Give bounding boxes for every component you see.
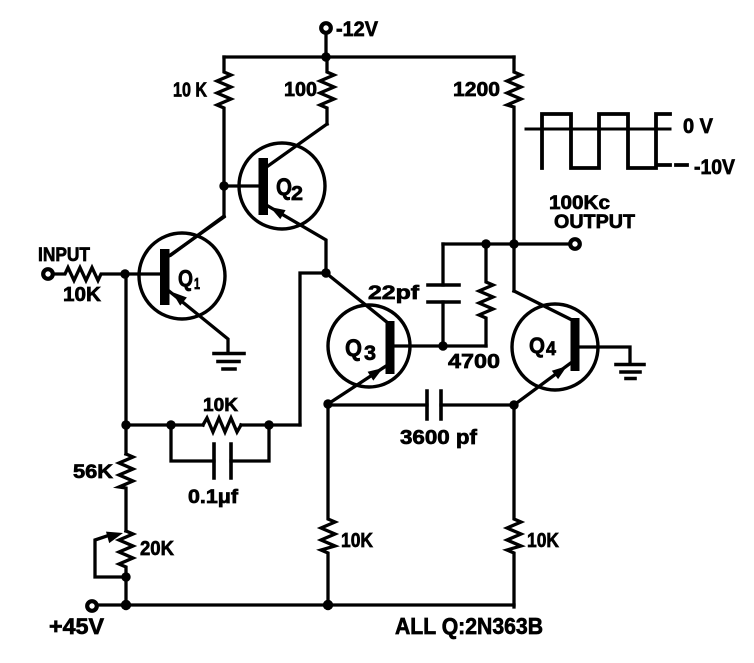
transistor Q2 emitter arrow bbox=[270, 207, 286, 219]
resistor 10K input bbox=[53, 268, 160, 281]
terminal INPUT bbox=[43, 269, 53, 279]
transistor Q4 circle bbox=[512, 304, 598, 390]
wire rail to Q4 collector bbox=[512, 244, 515, 291]
node Q2 emitter junction bbox=[321, 268, 330, 277]
resistor 10K feedback bbox=[203, 418, 241, 432]
svg-text:-10V: -10V bbox=[694, 156, 735, 179]
capacitor 3600pf right wire bbox=[441, 403, 514, 406]
node 4700 top junction bbox=[481, 239, 490, 248]
wire 56K branch vertical bbox=[124, 274, 127, 454]
capacitor 0.1uf left lead bbox=[171, 425, 214, 461]
capacitor 3600pf left wire bbox=[328, 403, 427, 406]
resistor 100 bbox=[320, 57, 334, 124]
capacitor 22pf top lead bbox=[441, 244, 444, 285]
svg-text:10K: 10K bbox=[341, 530, 373, 552]
resistor 10K (top left) bbox=[217, 57, 231, 216]
transistor Q2 base bar bbox=[259, 158, 269, 215]
wire output rail bbox=[443, 242, 570, 245]
svg-text:20K: 20K bbox=[140, 538, 175, 560]
wire Q1 collector to 10K vertical (diagonal) bbox=[171, 216, 224, 255]
potentiometer 20K wiper arrow bbox=[106, 532, 123, 544]
transistor Q1 base bar bbox=[160, 249, 170, 305]
capacitor 22pf bottom lead bbox=[441, 302, 444, 346]
svg-text:ALL Q:2N363B: ALL Q:2N363B bbox=[395, 613, 543, 639]
svg-text:10K: 10K bbox=[63, 284, 102, 306]
resistor 56K bbox=[119, 454, 133, 531]
potentiometer 20K resistor bbox=[119, 531, 133, 605]
capacitor 22pf plates bbox=[428, 285, 459, 302]
node 20K wiper junction bbox=[121, 572, 130, 581]
wire bottom rail bbox=[98, 603, 514, 606]
svg-text:3: 3 bbox=[364, 342, 376, 365]
svg-text:10K: 10K bbox=[203, 395, 238, 415]
dashed line -10V level bbox=[659, 163, 687, 167]
ground under Q1 bbox=[214, 354, 244, 370]
transistor Q2 emitter bbox=[268, 206, 326, 273]
resistor 10K bottom right bbox=[507, 405, 521, 607]
node output rail crossing bbox=[509, 239, 518, 248]
resistor 1200 bbox=[507, 57, 521, 244]
svg-text:1: 1 bbox=[194, 276, 200, 293]
wire Q4 base to ground bbox=[578, 347, 630, 363]
resistor 4700 bbox=[479, 244, 493, 346]
waveform axis 0V bbox=[526, 128, 670, 131]
transistor Q4 base bar bbox=[571, 318, 580, 371]
node bottom rail 10K junction bbox=[323, 600, 333, 610]
node 0.1uf left junction bbox=[166, 420, 175, 429]
ground at Q4 bbox=[616, 365, 644, 379]
svg-text:OUTPUT: OUTPUT bbox=[554, 211, 635, 233]
node 0.1uf right junction bbox=[264, 420, 273, 429]
node top rail junction bbox=[321, 52, 330, 61]
potentiometer 20K wiper bbox=[95, 536, 126, 577]
waveform square wave bbox=[542, 114, 670, 168]
terminal OUTPUT bbox=[570, 239, 580, 249]
wire junction left and down to feedback bbox=[300, 273, 326, 425]
terminal +45V bbox=[87, 601, 97, 611]
svg-text:2: 2 bbox=[291, 183, 303, 205]
node Q4 emitter junction bbox=[509, 400, 518, 409]
wire Q2 base bbox=[224, 184, 259, 187]
svg-text:100: 100 bbox=[284, 79, 317, 101]
terminal -12V bbox=[321, 23, 331, 33]
node input junction bbox=[120, 269, 129, 278]
transistor Q4 emitter bbox=[514, 362, 572, 405]
svg-text:0 V: 0 V bbox=[683, 115, 713, 138]
svg-text:56K: 56K bbox=[73, 461, 113, 483]
transistor Q2 collector bbox=[268, 124, 327, 166]
svg-text:0.1μf: 0.1μf bbox=[188, 487, 239, 508]
svg-text:INPUT: INPUT bbox=[38, 245, 90, 266]
capacitor 0.1uf plates bbox=[214, 444, 231, 478]
transistor Q3 base bar bbox=[386, 321, 395, 374]
svg-text:Q: Q bbox=[276, 174, 292, 201]
wire feedback horizontal bbox=[126, 423, 300, 426]
svg-text:3600 pf: 3600 pf bbox=[400, 427, 477, 449]
transistor Q3 emitter arrow bbox=[368, 368, 383, 381]
capacitor 0.1uf right lead bbox=[231, 425, 269, 461]
wire -12V terminal to top rail bbox=[324, 34, 327, 57]
svg-text:10K: 10K bbox=[527, 530, 559, 552]
svg-text:Q: Q bbox=[345, 335, 362, 362]
wire junction to Q3 collector (diagonal) bbox=[326, 273, 388, 323]
node bottom rail 20K junction bbox=[121, 600, 131, 610]
wire top rail bbox=[224, 55, 514, 58]
svg-text:1200: 1200 bbox=[453, 79, 500, 101]
svg-text:Q: Q bbox=[178, 265, 193, 291]
transistor Q1 emitter arrow bbox=[172, 292, 187, 306]
transistor Q1 collector bbox=[169, 217, 224, 256]
wire Q3 base to right bbox=[394, 344, 486, 347]
node 22pf bottom junction bbox=[438, 341, 447, 350]
transistor Q3 circle bbox=[328, 305, 410, 387]
transistor Q1 emitter bbox=[169, 291, 228, 352]
transistor Q1 circle bbox=[139, 233, 225, 319]
transistor Q2 circle bbox=[239, 143, 325, 229]
svg-text:10 K: 10 K bbox=[173, 80, 207, 102]
node Q3 emitter junction bbox=[323, 399, 332, 408]
transistor Q3 emitter bbox=[328, 366, 386, 404]
resistor 10K bottom middle bbox=[321, 404, 335, 605]
node feedback left junction bbox=[121, 420, 130, 429]
svg-text:4: 4 bbox=[546, 339, 556, 360]
svg-text:+45V: +45V bbox=[49, 614, 104, 639]
node Q2 base junction bbox=[219, 181, 228, 190]
svg-text:Q: Q bbox=[529, 333, 545, 358]
capacitor 3600pf plates bbox=[427, 391, 441, 419]
transistor Q4 collector bbox=[514, 291, 572, 320]
svg-text:4700: 4700 bbox=[448, 350, 500, 373]
svg-text:-12V: -12V bbox=[336, 18, 378, 41]
transistor Q4 emitter arrow bbox=[552, 366, 567, 379]
svg-text:22pf: 22pf bbox=[368, 283, 420, 304]
